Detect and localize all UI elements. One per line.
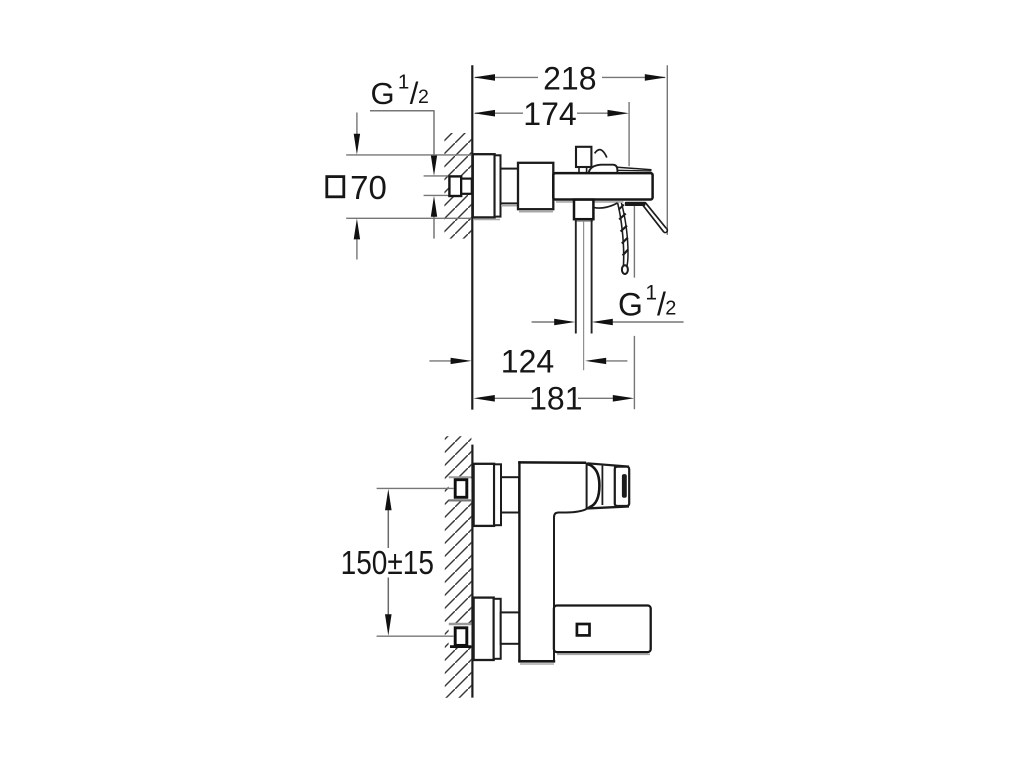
dimension 174 right extension line bbox=[628, 102, 630, 166]
wall line (top view) bbox=[471, 65, 473, 409]
150 up arrow bbox=[385, 489, 392, 510]
spout body (side view) bbox=[553, 173, 652, 199]
wall union stub outer (side view) bbox=[449, 176, 461, 196]
top union square bbox=[455, 480, 467, 498]
white backing bottom union bbox=[449, 625, 472, 646]
body top edge bbox=[518, 461, 586, 464]
column bottom edge bbox=[518, 660, 555, 663]
top union bar below bbox=[449, 499, 471, 501]
wall hatching (top view) bbox=[444, 133, 471, 239]
dimension 218 right extension line bbox=[666, 65, 668, 235]
dimension 174 right arrow bbox=[608, 110, 629, 117]
escutcheon flange plate 1 bottom inlet (front view) bbox=[474, 598, 494, 660]
flange shadow bbox=[474, 219, 500, 221]
handle end cap inner bar bbox=[622, 474, 627, 498]
svg-text:1: 1 bbox=[645, 282, 657, 305]
dimension 218 left arrow bbox=[474, 74, 495, 81]
body bottom shadow bbox=[556, 201, 624, 203]
dimension 218 right arrow bbox=[645, 74, 666, 81]
label G1/2 middle leader line bbox=[532, 321, 555, 323]
top union grey bar above bbox=[449, 476, 471, 478]
handle inner vertical 2 bbox=[614, 466, 616, 506]
neck shadow bbox=[501, 205, 518, 207]
spout block (front view) bbox=[554, 606, 651, 653]
escutcheon flange plate 2 (front view) bbox=[494, 464, 501, 525]
svg-text:G: G bbox=[371, 76, 395, 111]
G1/2 pipe edge extension lines bbox=[424, 175, 450, 177]
handle top line bbox=[587, 463, 629, 466]
G1/2 middle right-pointing arrow bbox=[554, 319, 575, 325]
label G1/2 top leader underline bbox=[370, 110, 435, 112]
G1/2 middle left-pointing arrow bbox=[592, 319, 613, 325]
svg-text:G: G bbox=[618, 287, 643, 323]
valve block shadow bbox=[519, 211, 553, 213]
svg-text:218: 218 bbox=[543, 60, 596, 96]
small square on spout bbox=[577, 624, 590, 635]
svg-text:124: 124 bbox=[501, 343, 554, 379]
svg-text:174: 174 bbox=[523, 96, 576, 132]
escutcheon flange plate 2 (side view) bbox=[495, 155, 501, 216]
bottom leader line (150 dim) bbox=[377, 635, 454, 637]
dimension 150+-15 vertical line bbox=[387, 510, 389, 549]
escutcheon flange plate 1 (side view) bbox=[473, 154, 495, 217]
dimension 181 line bbox=[495, 397, 534, 399]
body column left edge bbox=[518, 461, 520, 661]
handle dome left edge bbox=[586, 463, 588, 509]
valve block (side view) bbox=[518, 163, 553, 209]
dimension 181 right arrow bbox=[613, 395, 634, 402]
body underside of handle curve bbox=[554, 507, 590, 606]
dimension 70 upper arrow line bbox=[356, 113, 358, 135]
lever arm lower line bbox=[617, 169, 651, 172]
150 down arrow bbox=[385, 614, 392, 635]
wall hatching (bottom view) bbox=[445, 436, 472, 698]
diverter knob (side view) bbox=[576, 147, 591, 167]
handle dome arc bbox=[587, 464, 599, 507]
svg-text:2: 2 bbox=[418, 86, 429, 108]
dimension 70 lower arrow line bbox=[356, 240, 358, 260]
body column right edge lower bbox=[553, 605, 555, 661]
square symbol of 70 bbox=[327, 177, 344, 197]
wall line (bottom view) bbox=[471, 445, 473, 698]
shower outlet block (side view) bbox=[574, 200, 593, 220]
G1/2 top up arrow bbox=[431, 196, 437, 217]
dimension 181 right extension line bbox=[633, 206, 635, 278]
label G1/2 top text bbox=[371, 71, 429, 112]
outlet block shadow bbox=[575, 220, 593, 222]
dimension 70 extension lines bbox=[346, 154, 471, 156]
G1/2 top down arrow bbox=[431, 155, 437, 176]
svg-text:70: 70 bbox=[350, 169, 387, 206]
bottom union square bbox=[455, 628, 467, 646]
lever pivot hump bbox=[589, 165, 618, 174]
bottom union dark bar below bbox=[450, 645, 471, 648]
escutcheon flange plate 1 (front view) bbox=[474, 464, 495, 526]
handle bottom line bbox=[587, 506, 629, 508]
column bottom shadow bbox=[520, 663, 554, 665]
svg-text:2: 2 bbox=[665, 298, 676, 320]
dimension 218 line bbox=[475, 76, 665, 78]
knob neck lines bbox=[578, 167, 580, 173]
spout block bottom shadow bbox=[557, 653, 650, 655]
connector neck (front view) bbox=[501, 477, 519, 512]
dimension 181 left arrow bbox=[473, 395, 494, 402]
bottom union grey bar above bbox=[449, 623, 471, 625]
connector neck (side view) bbox=[501, 169, 519, 204]
svg-text:150±15: 150±15 bbox=[341, 545, 434, 582]
pipe centre extension line bbox=[583, 221, 585, 370]
top leader line (150 dim) bbox=[377, 487, 454, 489]
outlet pipe lines bbox=[575, 220, 577, 334]
lever handle diagonal bbox=[645, 202, 666, 228]
aerator slab under body bbox=[625, 202, 646, 206]
white backing top union bbox=[449, 478, 472, 499]
dimension 124 tails and arrows bbox=[429, 360, 451, 362]
label G1/2 middle text bbox=[618, 282, 676, 323]
handle end cap bbox=[615, 467, 629, 506]
handle inner vertical 1 bbox=[601, 466, 603, 505]
lever arm upper line bbox=[617, 167, 651, 170]
small arc right of knob bbox=[595, 150, 607, 158]
column right edge through spout bbox=[553, 607, 555, 652]
dimension 174 line bbox=[475, 112, 613, 114]
svg-text:181: 181 bbox=[529, 380, 582, 416]
svg-text:1: 1 bbox=[398, 71, 409, 94]
label G1/2 top leader vertical bbox=[433, 111, 435, 157]
hanging hose curve bbox=[594, 203, 618, 208]
wall union stub inner (side view) bbox=[461, 179, 472, 194]
escutcheon flange plate 2 bottom inlet (front view) bbox=[494, 599, 501, 659]
dimension 174 left arrow bbox=[474, 110, 495, 117]
connector neck bottom inlet (front view) bbox=[501, 612, 520, 643]
